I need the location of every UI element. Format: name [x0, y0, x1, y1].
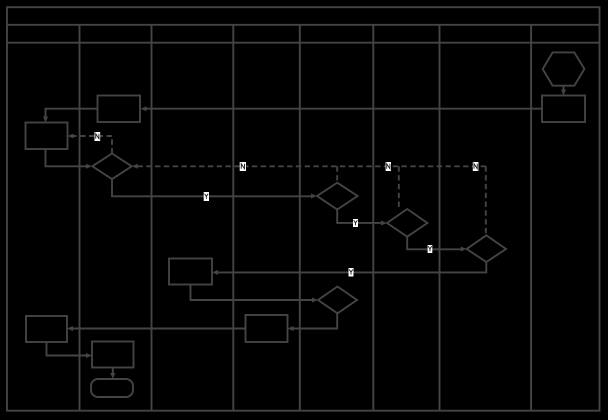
header band divider [7, 42, 600, 44]
lane line 2 [151, 25, 153, 411]
arrowhead into D2 left [311, 194, 317, 199]
arrowhead into D4 left [461, 247, 467, 252]
wire D2 Y to D3 [337, 210, 381, 223]
wire A to B [46, 109, 98, 117]
lane line 3 [232, 25, 234, 411]
decision D1 [92, 154, 131, 180]
lane line 7 [530, 25, 532, 411]
label N2 box [240, 162, 246, 171]
label N3 letter N [387, 164, 390, 169]
decision D3 [387, 209, 427, 237]
lane line 5 [372, 25, 374, 411]
process box G [542, 96, 585, 123]
label Y4 box [349, 268, 354, 277]
wire D to E [73, 328, 246, 330]
lane line 6 [439, 25, 441, 411]
wire F to end [112, 368, 114, 374]
lane line 4 [299, 25, 301, 411]
label N4 letter N [474, 164, 477, 169]
wire D4 Y to C [218, 262, 487, 272]
process box D [246, 315, 288, 342]
wire D3 Y to D4 [407, 237, 461, 250]
dashed N drop D4 [485, 166, 487, 235]
arrowhead into A right [141, 106, 147, 111]
arrowhead into D3 left [381, 221, 387, 226]
wire D1 Y to D2 [112, 179, 311, 196]
wire D5 to box D [293, 313, 337, 328]
decision D2 [317, 183, 358, 210]
label Y3 box [428, 245, 433, 253]
label Y3 letter Y [428, 246, 432, 251]
wire E to F [47, 342, 87, 356]
arrowhead into D5 left [312, 298, 318, 303]
arrowhead into G top [561, 90, 566, 96]
label N1 box [95, 132, 101, 141]
wire G to A [146, 108, 542, 110]
wire B to D1 [46, 149, 87, 166]
process box C [169, 259, 212, 285]
arrowhead into D1 left [86, 164, 92, 169]
arrowhead into E right [67, 326, 73, 331]
title band divider [7, 24, 600, 26]
label Y1 box [204, 192, 209, 201]
label Y2 letter Y [354, 220, 358, 225]
label N3 box [386, 162, 391, 171]
process box A [98, 96, 141, 123]
decision D5 [318, 287, 357, 314]
decision D4 [467, 235, 506, 262]
label N2 letter N [241, 164, 244, 169]
process box B [26, 123, 68, 150]
terminator end [91, 379, 133, 397]
label N4 box [473, 162, 479, 171]
arrowhead into F left [86, 353, 92, 358]
wire hexagon to box G [563, 86, 565, 90]
hexagon start node [543, 52, 585, 85]
arrowhead into D1 right (N bus) [132, 164, 138, 169]
dashed N drop D2 [336, 166, 338, 182]
dashed N bus horizontal [138, 165, 486, 167]
label Y2 box [353, 219, 358, 227]
arrowhead into D right [288, 326, 294, 331]
process box F [92, 342, 134, 368]
dashed N drop D3 [398, 166, 400, 209]
dashed wire D1 N to B [74, 136, 113, 154]
lane line 1 [79, 25, 81, 411]
wire C to D5 [191, 285, 313, 301]
process box E [26, 316, 67, 342]
arrowhead into C right [212, 270, 218, 275]
arrowhead into B right (dashed N) [68, 134, 74, 139]
arrowhead into B top [43, 117, 48, 123]
label Y4 letter Y [349, 269, 353, 274]
label N1 letter N [96, 134, 99, 139]
arrowhead into end top [110, 373, 115, 379]
label Y1 letter Y [205, 194, 209, 199]
